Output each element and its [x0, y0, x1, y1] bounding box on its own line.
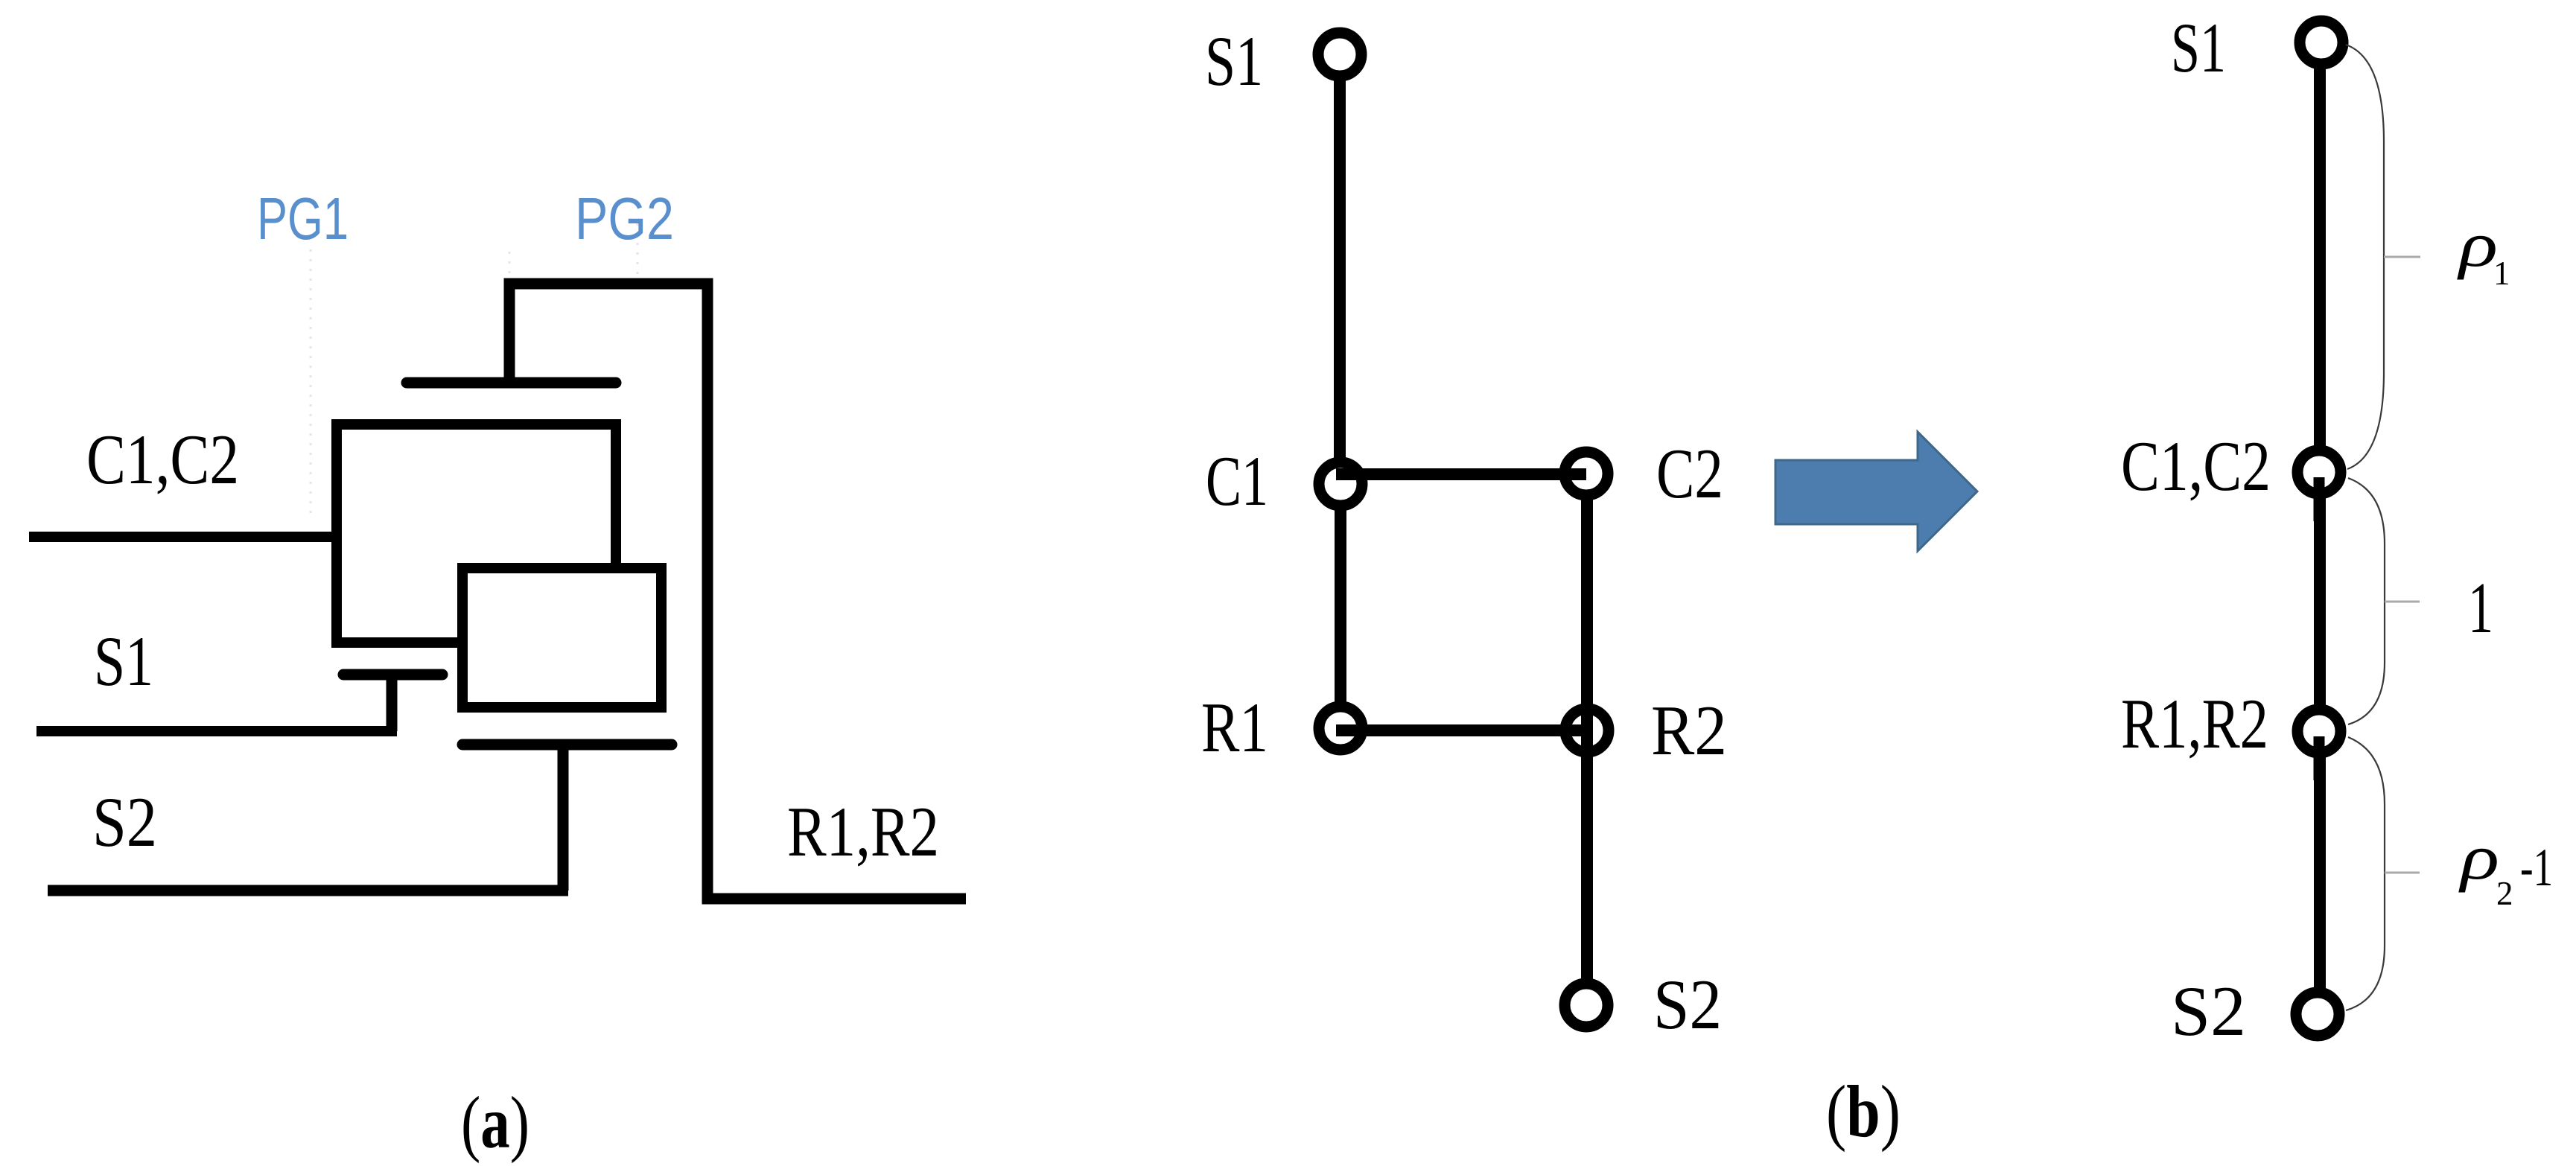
node R1,R2 (lever)	[2297, 710, 2341, 753]
wire: PG2 carrier top bracket + right vertical + R1,R2 output line	[509, 284, 966, 899]
node R1	[1319, 707, 1362, 750]
ring-gear bar PG1	[407, 377, 616, 389]
leader line (dotted) from PG2 label left	[509, 252, 511, 277]
transformation arrow	[1775, 432, 1977, 551]
wire: C1-C2 edge (drawn over nodes, centre to centre)	[1336, 468, 1586, 480]
ring-gear bar PG2	[462, 739, 672, 751]
leader line (dotted) from PG1 label	[311, 223, 637, 514]
svg-text:(b): (b)	[1826, 1070, 1901, 1153]
wire: lever stub inside R1,R2 node	[2314, 736, 2325, 780]
svg-text:ρ: ρ	[2456, 208, 2498, 280]
tick rho2-1	[2385, 872, 2420, 874]
svg-text:C1,C2: C1,C2	[2121, 427, 2271, 506]
wire: vertical stub crossing node R2	[1581, 706, 1593, 756]
node C1,C2 (lever)	[2297, 450, 2341, 494]
svg-text:ρ: ρ	[2458, 821, 2499, 893]
svg-text:PG2: PG2	[575, 185, 674, 252]
svg-text:S1: S1	[1205, 22, 1263, 101]
wire: lever stub inside C1,C2 node	[2314, 477, 2325, 521]
svg-text:C1: C1	[1206, 442, 1268, 520]
wire: S1-C1 edge	[1334, 54, 1346, 484]
sun-gear bar S1	[343, 669, 442, 681]
tick 1	[2385, 601, 2420, 603]
wire: R1-R2 edge (drawn over nodes, centre to centre)	[1336, 724, 1588, 736]
svg-text:2: 2	[2496, 875, 2513, 912]
node S1 (lever)	[2300, 21, 2343, 64]
wire: C2-R2 edge	[1581, 474, 1593, 730]
svg-text:R1,R2: R1,R2	[787, 792, 939, 871]
svg-text:(a): (a)	[461, 1081, 529, 1164]
carrier PG1 rectangle	[337, 424, 616, 643]
svg-text:R1,R2: R1,R2	[2121, 684, 2268, 763]
svg-text:S1: S1	[2171, 8, 2226, 87]
node C1	[1319, 462, 1362, 506]
wire: S1 input line	[36, 726, 397, 736]
wire: C1,C2 input line	[29, 532, 337, 542]
svg-text:R2: R2	[1651, 691, 1727, 770]
lever shaft	[2314, 42, 2326, 1014]
svg-text:C1,C2: C1,C2	[86, 420, 239, 499]
node S1 (panel b)	[1318, 33, 1361, 76]
leader line (dotted) from PG2 label right	[637, 223, 639, 277]
node S2 (lever)	[2296, 993, 2339, 1036]
svg-text:PG1: PG1	[257, 185, 349, 252]
svg-text:1: 1	[2468, 568, 2493, 648]
carrier PG2 rectangle	[462, 568, 661, 707]
wire: S2 stub	[558, 745, 569, 891]
svg-text:C2: C2	[1656, 434, 1723, 513]
wire: S2 input line	[48, 885, 568, 896]
svg-text:R1: R1	[1201, 688, 1268, 767]
node C2	[1565, 452, 1608, 495]
wire: R2-S2 edge	[1581, 730, 1593, 1005]
brace rho2-1 (R1,R2 to S2)	[2346, 737, 2385, 1010]
node R2	[1565, 709, 1609, 752]
brace rho1 (S1 to C1,C2)	[2346, 45, 2384, 469]
svg-text:-1: -1	[2520, 838, 2553, 897]
tick rho1	[2384, 256, 2420, 258]
wire: S1 stub	[387, 675, 398, 731]
svg-text:S2: S2	[2171, 972, 2246, 1051]
wire: C1-R1 edge	[1335, 484, 1346, 728]
svg-text:S2: S2	[1653, 965, 1722, 1044]
node S2 (panel b)	[1565, 984, 1608, 1027]
svg-text:S1: S1	[94, 622, 153, 701]
svg-text:S2: S2	[92, 783, 157, 861]
brace 1 (C1,C2 to R1,R2)	[2348, 478, 2385, 724]
svg-text:1: 1	[2493, 255, 2510, 292]
